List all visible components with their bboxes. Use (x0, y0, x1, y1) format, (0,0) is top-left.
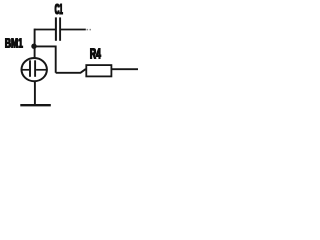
wire (34, 29, 36, 59)
node A (31, 44, 36, 49)
wire (35, 29, 56, 31)
label C1 (55, 2, 63, 18)
wire (56, 69, 87, 73)
wire (34, 81, 36, 105)
label BM1 (5, 37, 23, 51)
svg-text:R4: R4 (90, 45, 101, 62)
svg-text:C1: C1 (55, 2, 63, 18)
capacitor C1 (56, 17, 60, 40)
resistor R4 (86, 65, 111, 76)
label R4 (90, 45, 101, 62)
svg-text:BM1: BM1 (5, 37, 23, 51)
wire (34, 45, 56, 47)
ground (20, 104, 51, 106)
wire (111, 68, 138, 70)
microphone BM1 (22, 58, 47, 81)
wire (61, 29, 86, 31)
wire (55, 46, 57, 73)
